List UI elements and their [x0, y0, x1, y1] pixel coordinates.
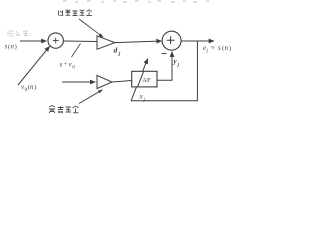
minus sign (lower input)	[162, 53, 167, 55]
svg-text:d: d	[114, 46, 118, 55]
wire: A1 to summer 2	[115, 41, 162, 43]
svg-text:): )	[34, 84, 36, 91]
wire: A2 to filter box	[112, 81, 132, 83]
feedback diagonal arrow through filter (adaptation)	[131, 59, 148, 101]
svg-text:+: +	[64, 61, 68, 68]
svg-text:n: n	[225, 44, 229, 52]
svg-text:j: j	[118, 51, 121, 57]
adaptive filter box AF	[132, 71, 157, 87]
leader arrow from primary-input label to A1	[79, 19, 103, 37]
svg-text:j: j	[177, 63, 180, 68]
svg-text:s: s	[60, 61, 63, 69]
leader line for s+v0 label	[72, 44, 81, 58]
amplifier A1 (triangle)	[97, 36, 115, 50]
wire: s(n) into summer 1	[20, 40, 47, 42]
svg-text:≈: ≈	[211, 45, 215, 52]
faint label: 信号源 (signal source, scanned faint)	[8, 31, 28, 36]
output wire with arrow	[181, 40, 214, 42]
diagonal visible inside box	[138, 71, 144, 87]
faint top-edge cut-off text specks	[63, 1, 209, 2]
summing junction 1	[48, 33, 63, 48]
wire: filter output up into summer 2	[157, 52, 172, 81]
svg-text:): )	[229, 45, 231, 52]
feedback tap: down and left	[131, 41, 197, 101]
leader arrow from reference-input label to A2	[79, 90, 102, 104]
label: reference input (参考输入) fake glyph strokes	[49, 106, 79, 114]
svg-text:s: s	[218, 44, 221, 52]
wire: summer 1 to amplifier A1	[63, 40, 97, 43]
reference input wire into amplifier A2	[62, 81, 95, 83]
svg-text:): )	[15, 44, 17, 51]
svg-text:0: 0	[72, 65, 75, 70]
plus sign in summer 1	[53, 38, 59, 44]
amplifier A2 (triangle)	[97, 75, 112, 88]
svg-text:AF: AF	[142, 77, 151, 84]
plus sign in summer 2	[167, 36, 175, 44]
label: primary channel input (主通道输入) fake glyph strokes	[59, 10, 93, 16]
wire: v0(n) diagonal into summer 1	[18, 46, 50, 85]
summing junction 2	[162, 31, 181, 50]
svg-text:j: j	[206, 49, 209, 54]
